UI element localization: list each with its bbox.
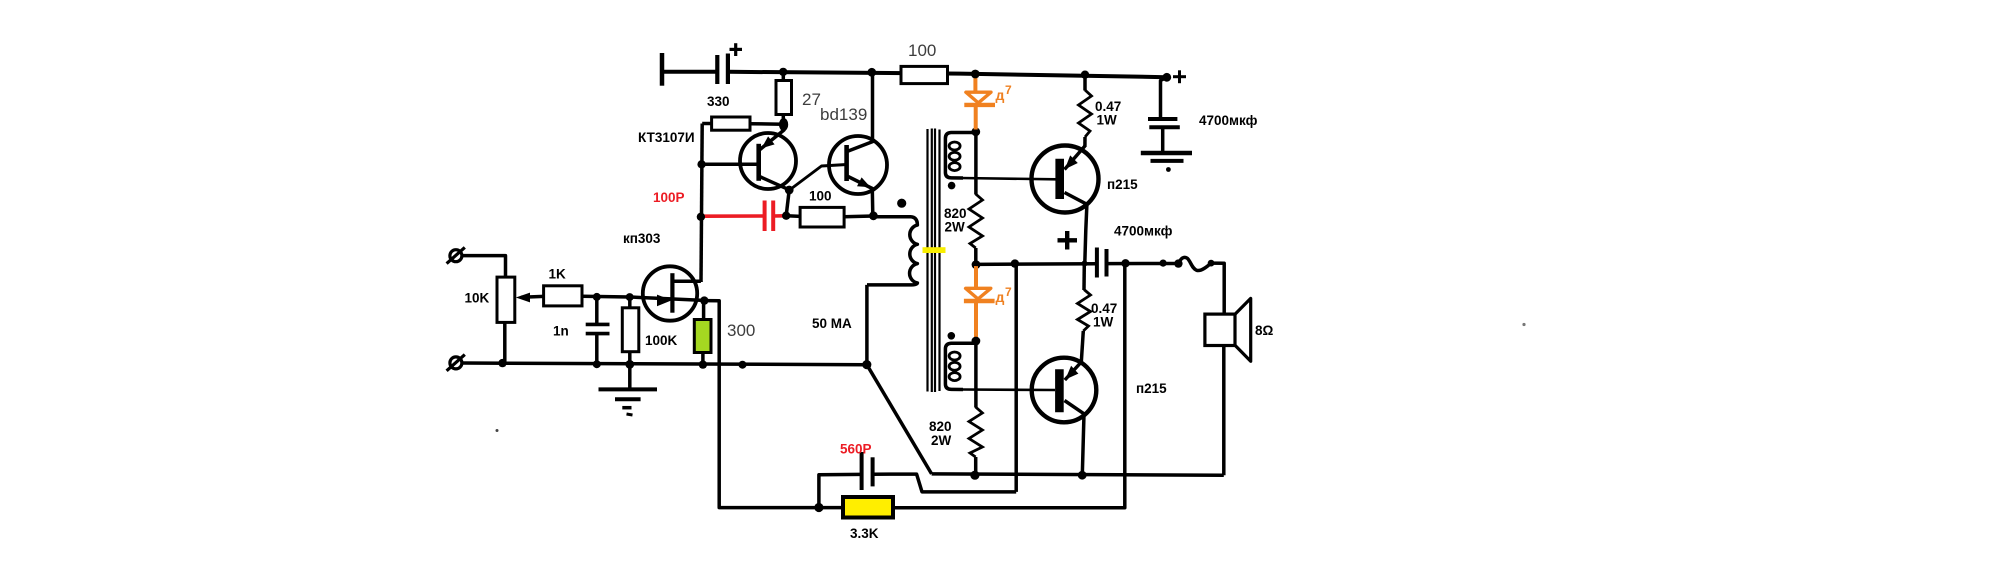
wire 3.3K right run xyxy=(893,263,1125,507)
secondary 2 phasing dot xyxy=(948,332,956,340)
svg-text:100K: 100K xyxy=(645,333,678,348)
kп303 gate arrow xyxy=(657,295,672,307)
wire diagonal to bd139 base xyxy=(790,165,847,191)
wire 560P drop vertical xyxy=(1014,264,1018,492)
svg-text:50 MA: 50 MA xyxy=(812,316,852,331)
wire sec1 top to 820 xyxy=(974,133,978,195)
kп303 drain lead xyxy=(673,280,701,284)
capacitor 1n plates xyxy=(586,323,610,327)
resistor 0.47 1W (top) zigzag xyxy=(1079,90,1092,137)
wire cap to ground xyxy=(1161,128,1165,152)
wire 560P left run xyxy=(819,474,861,507)
node 820-2 / bottom rail xyxy=(970,471,979,480)
capacitor supply plates xyxy=(715,55,719,84)
КТ3107И base lead xyxy=(702,163,759,167)
connector dots and squiggle xyxy=(1160,260,1167,267)
resistor 1K xyxy=(544,286,582,306)
resistor 100K leads xyxy=(628,297,632,308)
svg-text:3.3K: 3.3K xyxy=(850,526,879,541)
svg-text:КТ3107И: КТ3107И xyxy=(638,130,695,145)
capacitor 1n leads xyxy=(595,297,599,324)
node bd139 emitter / 100res / primary xyxy=(869,211,878,220)
wire 560P lower run xyxy=(873,474,1016,492)
long vertical wire (330/base/100P node) xyxy=(701,124,702,283)
wire to 3.3K xyxy=(819,506,844,510)
svg-text:1W: 1W xyxy=(1093,315,1114,330)
wire sec2 to 820-2 xyxy=(974,341,978,408)
svg-text:820: 820 xyxy=(929,419,952,434)
stray speck xyxy=(496,429,499,432)
output wire right segment xyxy=(1107,262,1179,266)
node 820/output wire/diode2 xyxy=(972,260,981,269)
plus rail end xyxy=(1173,70,1186,83)
resistor 330 xyxy=(712,117,750,130)
resistor 0.47 1W (bottom) zigzag xyxy=(1078,290,1091,332)
secondary 1 loops xyxy=(949,142,960,171)
node: 1n bottom / rail xyxy=(593,360,601,368)
svg-text:330: 330 xyxy=(707,94,730,109)
wire collector to cap node xyxy=(786,190,789,216)
svg-text:кп303: кп303 xyxy=(623,231,661,246)
svg-text:1W: 1W xyxy=(1097,113,1118,128)
speaker box xyxy=(1205,314,1235,345)
supply terminal bar xyxy=(660,53,665,86)
transistor п215 top circle xyxy=(1032,146,1099,213)
node output/3.3K drop xyxy=(1121,259,1129,267)
svg-text:4700мкф: 4700мкф xyxy=(1114,224,1173,239)
wire gate xyxy=(582,296,704,300)
input terminal bottom xyxy=(447,355,465,371)
secondary 2 loops xyxy=(949,352,960,381)
svg-text:bd139: bd139 xyxy=(820,105,867,124)
svg-text:д: д xyxy=(996,289,1005,305)
wire input top to pot xyxy=(462,256,505,278)
svg-text:1n: 1n xyxy=(553,324,569,339)
svg-text:п215: п215 xyxy=(1107,177,1138,192)
yellow core mark xyxy=(923,247,946,253)
top supply rail xyxy=(728,72,1167,77)
ground xyxy=(599,389,658,415)
secondary 1 winding outline + base wire to top п215 xyxy=(945,133,975,179)
svg-text:100: 100 xyxy=(809,189,832,204)
svg-text:100: 100 xyxy=(908,41,936,60)
bottom right rail xyxy=(932,474,1224,475)
node: 100K top / gate wire xyxy=(626,293,634,301)
resistor 100 (driver) xyxy=(800,207,844,227)
svg-text:27: 27 xyxy=(802,90,821,109)
node: 300 bottom / rail xyxy=(699,360,707,368)
node output/560P drop xyxy=(1011,259,1019,267)
kп303 channel bar xyxy=(670,273,674,313)
wire rail to 0.47-1 xyxy=(1083,75,1087,91)
svg-text:10K: 10K xyxy=(465,291,490,306)
п215 bottom collector lead xyxy=(1065,401,1085,476)
resistor 3.3K (yellow) xyxy=(843,497,893,518)
п215 bottom emitter arrow xyxy=(1065,366,1078,380)
wire rail to 4700 right cap xyxy=(1161,77,1167,117)
КТ3107И emitter lead xyxy=(760,122,784,150)
node 27/rail xyxy=(779,68,787,76)
wire diagonal to bottom rail xyxy=(867,365,932,474)
svg-text:2W: 2W xyxy=(931,433,952,448)
node 0.47-1/rail xyxy=(1081,71,1089,79)
svg-text:560P: 560P xyxy=(840,442,872,457)
pot wiper arrow xyxy=(516,293,544,303)
node diode1/rail xyxy=(971,70,980,79)
node 50MA junction xyxy=(862,360,871,369)
resistor 820 2W (bottom) zigzag xyxy=(969,407,982,457)
node: 100K bottom / ground / rail xyxy=(625,360,634,369)
diode А7 top (orange) xyxy=(964,75,995,130)
wire speaker bottom xyxy=(1222,345,1226,475)
resistor 100 (rail) xyxy=(901,66,948,83)
resistor 820 2W (top) zigzag xyxy=(969,194,983,248)
wire source to feedback drop xyxy=(705,301,819,508)
diode А7 bottom (orange) xyxy=(964,266,995,340)
SECTION: middle driver xyxy=(638,41,1167,282)
transistor п215 bottom circle xyxy=(1032,358,1097,423)
stray speck xyxy=(1522,323,1525,326)
node 27/330/emitter blob xyxy=(779,118,788,131)
SECTION: output right xyxy=(814,70,1273,541)
node: source junction xyxy=(700,296,708,304)
JFET kп303 circle xyxy=(643,266,697,320)
bd139 emitter arrow xyxy=(857,177,871,187)
secondary 1 phasing dot xyxy=(948,182,956,190)
input terminal top xyxy=(447,247,465,263)
svg-text:7: 7 xyxy=(1005,83,1012,97)
node 100P left xyxy=(697,213,705,221)
svg-text:100P: 100P xyxy=(653,190,685,205)
capacitor 560P plates xyxy=(862,452,873,490)
capacitor 4700мкф output plates xyxy=(1097,248,1107,278)
КТ3107И base bar xyxy=(756,144,761,181)
wire 100 res right xyxy=(844,214,874,218)
bd139 base bar xyxy=(844,145,849,181)
potentiometer 10K xyxy=(497,277,515,322)
ground right xyxy=(1141,153,1192,172)
п215 top emitter lead xyxy=(1065,146,1085,170)
node: 1n top / gate wire xyxy=(593,293,601,301)
svg-text:д: д xyxy=(996,87,1005,103)
output wire left segment xyxy=(976,262,1097,266)
wire collector to 0.47-2 xyxy=(1082,263,1086,290)
bd139 collector vertical xyxy=(871,72,875,141)
svg-text:2W: 2W xyxy=(945,220,966,235)
svg-text:1K: 1K xyxy=(549,267,567,282)
wire primary bottom to ground node xyxy=(865,285,869,365)
wire source to 300 xyxy=(702,301,706,320)
п215 top base bar xyxy=(1055,159,1064,199)
svg-text:300: 300 xyxy=(727,321,755,340)
resistor 300 (green) xyxy=(694,320,711,353)
capacitor 4700мкф right plates xyxy=(1148,119,1180,127)
transistor bd139 circle xyxy=(829,136,887,194)
label д7 bottom xyxy=(996,285,1013,305)
secondary 2 winding outline + base wire to bottom п215 xyxy=(945,343,976,389)
node: pot bottom / rail xyxy=(498,359,506,367)
КТ3107И collector lead xyxy=(760,177,790,190)
ground stem xyxy=(628,364,632,389)
wire bottom rail xyxy=(462,363,867,365)
node feedback junction xyxy=(814,503,823,512)
wire terminal to supply cap xyxy=(662,70,717,74)
SECTION: transformer xyxy=(862,75,1055,480)
node: rail junction xyxy=(739,361,747,369)
node base/vertical xyxy=(697,160,705,168)
SECTION: input / left xyxy=(447,231,867,508)
п215 bottom base bar xyxy=(1055,369,1064,412)
wire 0.47-1 to emitter xyxy=(1083,137,1087,147)
svg-text:п215: п215 xyxy=(1136,381,1167,396)
plus output cap xyxy=(1058,231,1078,250)
wire 0.47-2 to emitter-2 xyxy=(1081,331,1083,362)
primary winding xyxy=(867,217,917,285)
svg-text:7: 7 xyxy=(1005,285,1012,299)
п215 top collector lead xyxy=(1065,193,1087,264)
node collector/output wire xyxy=(1082,261,1088,267)
speaker horn xyxy=(1235,298,1251,361)
node diode1 / sec1 top xyxy=(971,127,980,136)
transistor КТ3107И circle xyxy=(740,133,796,189)
wire 330 right xyxy=(750,122,783,126)
wire 27 bottom xyxy=(782,114,786,125)
п215 bottom emitter lead xyxy=(1065,362,1082,380)
node collector2/bottom rail xyxy=(1078,471,1087,480)
wire 27 top xyxy=(782,72,786,81)
п215 top emitter arrow xyxy=(1065,155,1078,169)
wire 300 bottom xyxy=(701,352,705,365)
svg-text:8Ω: 8Ω xyxy=(1255,323,1274,338)
node rail end xyxy=(1162,73,1171,82)
node collector xyxy=(785,186,794,195)
capacitor 100P (red) xyxy=(703,201,784,232)
resistor 27 xyxy=(776,81,792,115)
wire pot bottom xyxy=(503,322,507,363)
node 100P right / 100 res xyxy=(782,212,790,220)
wire 820-2 bottom xyxy=(974,457,978,473)
plus supply xyxy=(730,43,743,56)
svg-text:4700мкф: 4700мкф xyxy=(1199,113,1258,128)
node diode2 / sec2 top xyxy=(972,337,981,346)
resistor 100K xyxy=(622,308,639,352)
bd139 collector lead xyxy=(847,141,876,152)
core lamination lines xyxy=(928,129,940,393)
КТ3107И emitter arrow xyxy=(762,136,775,148)
wire 330 left corner xyxy=(702,122,712,126)
label д7 top xyxy=(996,83,1013,103)
node bd139 collector/rail xyxy=(867,68,876,77)
bd139 emitter lead xyxy=(847,176,873,216)
wire 820 bottom xyxy=(974,248,978,265)
wire 100 res left xyxy=(786,214,800,218)
primary phasing dot xyxy=(897,199,906,208)
wire to speaker top xyxy=(1211,263,1224,314)
